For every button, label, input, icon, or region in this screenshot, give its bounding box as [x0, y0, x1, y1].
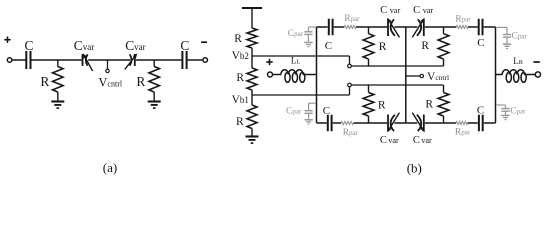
label Vcntrl (a) [98, 76, 122, 90]
capacitor C top-right (b) [479, 19, 483, 36]
svg-text:R: R [378, 100, 386, 112]
label node Vb2 (b) [232, 50, 249, 62]
inductor LR (b) [502, 70, 526, 83]
svg-text:Cpar: Cpar [286, 106, 302, 116]
caption (b) [407, 160, 422, 175]
parasitic resistor Rpar top-left (b) [344, 26, 356, 29]
svg-text:Vb2: Vb2 [232, 50, 249, 62]
wire C1 to varactor (a) with node at R [32, 59, 82, 61]
wire C to right bus (b) top [484, 26, 496, 28]
svg-text:Cpar: Cpar [512, 32, 528, 42]
svg-text:C: C [413, 135, 420, 146]
capacitor C top-left (b) [329, 19, 333, 36]
label R bridge bottom-left (b) [378, 100, 386, 112]
terminal + (b) input port [266, 59, 272, 77]
label R bridge top-right (b) [421, 40, 429, 52]
parasitic capacitor Cpar top-left (b) [304, 27, 316, 43]
svg-text:var: var [423, 6, 434, 15]
svg-text:R: R [136, 74, 145, 89]
svg-text:C: C [477, 37, 484, 49]
label C1 (a) [25, 38, 34, 53]
wire Vb2 rail (b) [252, 56, 350, 64]
capacitor C bottom-right (b) [479, 115, 483, 132]
label C top-right (b) [477, 37, 484, 49]
svg-text:R: R [234, 33, 242, 45]
svg-text:R: R [421, 40, 429, 52]
parasitic capacitor Cpar bottom-right (b) [496, 105, 509, 115]
svg-text:C: C [477, 105, 484, 117]
wire left vertical bus (b) [316, 27, 318, 123]
supply rail bar (b) [242, 7, 262, 9]
resistor Rbias2 (b) [247, 68, 257, 90]
wire Rpar to bridge left node (b) bottom [354, 122, 388, 124]
wire Vcntrl vertical bus (b) [405, 27, 407, 123]
svg-text:C: C [325, 40, 332, 52]
wire rail to Rbias1 (b) [251, 8, 253, 28]
ground (a) right [148, 102, 161, 109]
label C2 (a) [180, 38, 189, 53]
wire input to C1 (a) [12, 59, 26, 61]
label C bottom-right (b) [477, 105, 484, 117]
svg-text:(a): (a) [103, 160, 117, 175]
wire input to LL (b) [273, 74, 282, 76]
wire C to Rpar bottom-left (b) [333, 122, 341, 124]
connector circle bottom (b) [348, 83, 352, 87]
caption (a) [103, 160, 117, 175]
svg-text:C: C [25, 38, 34, 53]
wire varactor to bridge right node (b) top [425, 26, 457, 28]
resistor Rbias3 (b) [247, 105, 257, 129]
label Cvar top-right (b) [413, 5, 433, 16]
wire left bus to C top-left (b) [317, 26, 328, 28]
ground (a) left [51, 102, 64, 109]
capacitor C1 (a) input DC block [26, 51, 30, 69]
label R2 (a) [136, 74, 145, 89]
svg-text:R: R [236, 116, 244, 128]
ground Cpar bottom-right (b) [501, 115, 509, 119]
terminal Vcntrl (a) [106, 69, 109, 72]
capacitor C2 (a) output DC block [182, 51, 186, 69]
label Cvar top-left (b) [380, 5, 400, 16]
svg-text:Cpar: Cpar [510, 107, 526, 117]
label LL (b) [291, 56, 301, 66]
svg-text:C: C [380, 135, 387, 146]
wire Rpar to C bottom-right (b) [468, 122, 478, 124]
svg-text:var: var [390, 6, 401, 15]
wire Rbias1 to Rbias2 through node Vb2 (b) [251, 48, 253, 68]
parasitic resistor Rpar bottom-right (b) [456, 122, 468, 125]
wire right bus to LR (b) [496, 74, 503, 76]
wire varactor to bridge right node (b) bottom [425, 122, 456, 124]
svg-text:Cpar: Cpar [288, 29, 304, 39]
resistor R bridge bottom-right (b) [438, 85, 449, 123]
resistor R2 (a) shunt [149, 60, 160, 102]
svg-text:var: var [421, 136, 432, 145]
svg-text:Vcntrl: Vcntrl [427, 71, 449, 83]
wire LR to output terminal (b) [524, 74, 535, 76]
terminal + (a) input port [4, 37, 12, 63]
label C top-left (b) [325, 40, 332, 52]
svg-text:R: R [425, 98, 433, 110]
terminal - (b) output port [533, 62, 540, 77]
label Cpar top-right (b) [512, 32, 528, 42]
resistor R bridge top-right (b) [438, 27, 449, 66]
parasitic resistor Rpar bottom-left (b) [341, 122, 354, 125]
resistor Rbias1 (b) [247, 28, 257, 48]
label Rpar top-left (b) [344, 14, 360, 24]
wire bottom bias rail to bridge resistors (b) [351, 84, 443, 86]
svg-text:Rpar: Rpar [455, 128, 471, 138]
inductor LL (b) [281, 70, 305, 83]
label Cpar bottom-left (b) [286, 106, 302, 116]
resistor R1 (a) shunt [53, 60, 64, 102]
label Cvar2 (a) [125, 38, 145, 53]
label Cvar bottom-left (b) [380, 135, 399, 146]
resistor R bridge bottom-left (b) [363, 85, 374, 123]
label Cpar bottom-right (b) [510, 107, 526, 117]
label Vcntrl (b) [427, 71, 449, 83]
label node Vb1 (b) [232, 94, 249, 106]
label Cvar bottom-right (b) [413, 135, 432, 146]
wire C2 to output (a) [188, 59, 203, 61]
wire varactor2 to C2 (a) [136, 59, 182, 61]
label C bottom-left (b) [323, 105, 330, 117]
svg-text:C: C [323, 105, 330, 117]
varactor Cvar1 (a) [83, 53, 93, 71]
wire C to right bus (b) bottom [484, 122, 496, 124]
wire right vertical bus (b) [495, 27, 497, 123]
svg-text:(b): (b) [407, 160, 422, 175]
parasitic resistor Rpar top-right (b) [456, 26, 468, 29]
wire Vcntrl tap (b) [406, 75, 420, 77]
svg-text:Rpar: Rpar [343, 128, 359, 138]
wire Rpar to C top-right (b) [468, 26, 478, 28]
ground Cpar top-right (b) [503, 44, 511, 48]
svg-text:R: R [236, 72, 244, 84]
label Rbias3 (b) [236, 116, 244, 128]
varactor Cvar bottom-left (b) [387, 113, 399, 133]
wire C to Rpar top-left (b) [334, 26, 345, 28]
parasitic capacitor Cpar bottom-left (b) [305, 103, 317, 120]
wire Vb1 rail (b) [252, 87, 350, 95]
label LR (b) [513, 56, 524, 66]
parasitic capacitor Cpar top-right (b) [496, 27, 511, 44]
label R bridge top-left (b) [379, 41, 387, 53]
varactor Cvar bottom-right (b) [412, 113, 424, 133]
label Rpar bottom-right (b) [455, 128, 471, 138]
wire LL to left bus (b) [303, 74, 317, 76]
label Cvar1 (a) [74, 38, 94, 53]
svg-text:Vb1: Vb1 [232, 94, 249, 106]
svg-text:R: R [379, 41, 387, 53]
svg-text:var: var [388, 136, 399, 145]
ground Cpar bottom-left (b) [304, 120, 312, 124]
label R bridge bottom-right (b) [425, 98, 433, 110]
capacitor C bottom-left (b) [328, 115, 332, 132]
terminal - (a) output port [201, 42, 207, 62]
wire Rpar to bridge left node (b) top [356, 26, 387, 28]
label Cpar top-left (b) [288, 29, 304, 39]
wire varactor1 to varactor2 (a) [88, 59, 130, 61]
label Rpar top-right (b) [455, 14, 471, 24]
svg-text:C: C [180, 38, 189, 53]
label Rpar bottom-left (b) [343, 128, 359, 138]
wire varactor to varactor top with Vcntrl bus tap (b) [394, 26, 417, 28]
svg-text:C: C [380, 5, 387, 16]
wire varactor to varactor bottom with Vcntrl bus tap (b) [394, 122, 417, 124]
label R1 (a) [40, 74, 49, 89]
connector circle top (b) [348, 64, 352, 68]
ground Cpar top-left (b) [304, 43, 312, 47]
label Rbias1 (b) [234, 33, 242, 45]
wire Rbias3 to ground (b) [251, 129, 253, 137]
varactor Cvar top-right (b) [412, 18, 424, 38]
ground (b) bias chain [246, 137, 259, 144]
terminal Vcntrl (b) [420, 74, 423, 77]
resistor R bridge top-left (b) [363, 27, 374, 66]
varactor Cvar2 (a) [125, 53, 138, 69]
svg-text:Rpar: Rpar [344, 14, 360, 24]
varactor Cvar top-left (b) [387, 18, 399, 38]
svg-text:Rpar: Rpar [455, 14, 471, 24]
svg-text:C: C [413, 5, 420, 16]
node Vcntrl stub (a) [107, 60, 109, 69]
wire top bias rail to bridge resistors (b) [351, 65, 443, 67]
svg-text:R: R [40, 74, 49, 89]
label Rbias2 (b) [236, 72, 244, 84]
wire Rbias2 to Rbias3 through node Vb1 (b) [251, 90, 253, 105]
wire left bus to C bottom-left (b) [317, 122, 327, 124]
